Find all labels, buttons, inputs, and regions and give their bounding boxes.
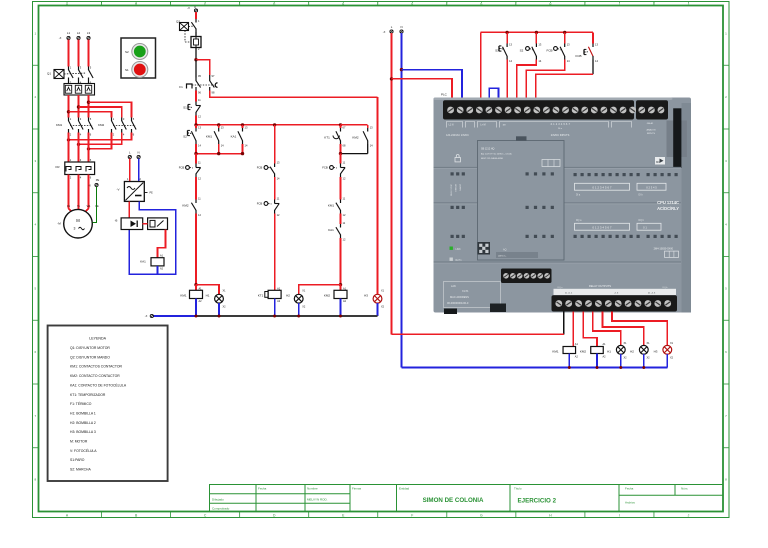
svg-text:S1: S1: [125, 68, 129, 72]
svg-text:F: F: [411, 513, 413, 517]
svg-text:MAINT: MAINT: [459, 183, 462, 190]
svg-text:H1: H1: [206, 294, 210, 298]
svg-text:AQ 1x17 KTT 4x 10VDC - 0.5mA: AQ 1x17 KTT 4x 10VDC - 0.5mA: [481, 152, 512, 155]
svg-text:KM2: KM2: [352, 136, 359, 140]
svg-text:L1 N: L1 N: [449, 124, 454, 126]
svg-text:PE: PE: [150, 192, 154, 195]
svg-text:H1: H1: [607, 349, 611, 353]
svg-text:MAC ADDRESS: MAC ADDRESS: [450, 295, 469, 299]
svg-text:KA1: KA1: [328, 228, 334, 232]
svg-text:Dibujado: Dibujado: [212, 497, 224, 501]
svg-text:.0 .1 .2 .3 .4 .5 .6 .7: .0 .1 .2 .3 .4 .5 .6 .7: [550, 124, 571, 126]
svg-text:S2: S2: [520, 49, 524, 53]
svg-text:FCB: FCB: [257, 202, 263, 206]
svg-text:00-00000000-00-0: 00-00000000-00-0: [447, 301, 469, 305]
svg-text:ANALOG: ANALOG: [646, 129, 655, 132]
svg-text:MELVYN ROD.: MELVYN ROD.: [307, 497, 328, 501]
svg-text:0 2 3 4 5: 0 2 3 4 5: [646, 186, 657, 190]
svg-text:Fecha: Fecha: [258, 486, 267, 490]
svg-text:Q: Q: [194, 5, 196, 9]
svg-text:DQ a: DQ a: [558, 287, 564, 289]
svg-text:V: FOTOCÉLULA: V: FOTOCÉLULA: [70, 448, 97, 453]
svg-text:ERROR: ERROR: [456, 184, 458, 192]
svg-text:KM1: KM1: [552, 349, 559, 353]
svg-text:KT1: KT1: [324, 136, 330, 140]
svg-text:INPUTS: INPUTS: [647, 133, 656, 135]
svg-text:-X: -X: [59, 36, 62, 40]
svg-text:FCB: FCB: [576, 54, 582, 58]
svg-text:-V: -V: [117, 188, 120, 192]
svg-text:S1:PARO: S1:PARO: [70, 458, 85, 462]
svg-text:MC: MC: [656, 160, 660, 164]
svg-text:Q1: DISYUNTOR MOTOR: Q1: DISYUNTOR MOTOR: [70, 346, 110, 350]
svg-text:FCB: FCB: [322, 166, 328, 170]
svg-text:CPU 1214C: CPU 1214C: [657, 200, 679, 205]
svg-text:Rx/Tx: Rx/Tx: [456, 260, 463, 262]
svg-text:KM1: KM1: [206, 135, 213, 139]
svg-text:KA1: CONTACTO DE FOTOCÉLULA: KA1: CONTACTO DE FOTOCÉLULA: [70, 382, 127, 387]
svg-text:X1 P1: X1 P1: [462, 290, 469, 293]
svg-text:RUN / STOP: RUN / STOP: [451, 183, 453, 195]
svg-text:H2: H2: [286, 294, 290, 298]
svg-text:N: N: [138, 151, 140, 155]
svg-text:KA1: KA1: [140, 260, 146, 264]
svg-text:AC/DC/RLY: AC/DC/RLY: [657, 206, 679, 211]
svg-text:F1: F1: [179, 85, 183, 89]
svg-text:EJERCICIO 2: EJERCICIO 2: [518, 498, 557, 505]
svg-text:LEYENDA: LEYENDA: [89, 337, 106, 341]
svg-text:AQ: AQ: [503, 249, 507, 252]
svg-text:-X: -X: [383, 30, 386, 34]
svg-text:FCB: FCB: [179, 166, 185, 170]
svg-text:S2: S2: [183, 135, 187, 139]
svg-text:S2: MARCHA: S2: MARCHA: [70, 468, 91, 472]
svg-text:1L .0 .1: 1L .0 .1: [565, 293, 573, 295]
svg-text:KT1: KT1: [258, 294, 264, 298]
svg-text:F1: TÉRMICO: F1: TÉRMICO: [70, 401, 92, 406]
svg-text:H3: H3: [364, 294, 368, 298]
svg-text:LAN: LAN: [451, 285, 456, 288]
svg-text:L3: L3: [87, 31, 91, 35]
svg-text:Comprobado: Comprobado: [212, 507, 230, 511]
svg-text:SIMON DE COLONIA: SIMON DE COLONIA: [423, 497, 484, 504]
svg-text:Título: Título: [514, 486, 522, 490]
svg-text:N: N: [400, 25, 402, 29]
svg-text:KM2: KM2: [182, 204, 189, 208]
svg-text:1M: 1M: [502, 124, 505, 126]
svg-text:H1: BOMBILLA 1: H1: BOMBILLA 1: [70, 411, 96, 415]
svg-text:DI a: DI a: [576, 194, 581, 196]
svg-text:H2: H2: [630, 349, 634, 353]
svg-text:RELAY OUTPUTS: RELAY OUTPUTS: [589, 284, 611, 288]
svg-text:0 1 2 3 4 5 6 7: 0 1 2 3 4 5 6 7: [592, 186, 612, 190]
svg-text:KM2: KM2: [324, 294, 331, 298]
svg-text:KA1: KA1: [231, 135, 237, 139]
svg-text:Núm.: Núm.: [681, 486, 688, 490]
svg-text:-B: -B: [115, 219, 118, 223]
svg-text:I: I: [619, 513, 620, 517]
svg-text:-X: -X: [88, 184, 91, 188]
svg-text:KM1: KM1: [56, 123, 63, 127]
svg-text:M: M: [76, 218, 80, 223]
svg-text:SB 1212 HQ: SB 1212 HQ: [481, 148, 495, 151]
svg-text:Fecha: Fecha: [625, 486, 634, 490]
svg-text:Q1: Q1: [47, 72, 51, 76]
svg-text:-X: -X: [187, 6, 190, 10]
svg-text:-X: -X: [145, 314, 148, 318]
svg-text:KT1: TEMPORIZADOR: KT1: TEMPORIZADOR: [70, 393, 106, 397]
svg-text:2M4-13830-0X00: 2M4-13830-0X00: [654, 247, 674, 250]
svg-text:24VDC INPUTS: 24VDC INPUTS: [551, 133, 570, 137]
svg-text:KM2: KM2: [98, 123, 105, 127]
svg-text:Q2: DISYUNTOR MANDO: Q2: DISYUNTOR MANDO: [70, 355, 110, 359]
svg-text:L1: L1: [67, 31, 71, 35]
svg-text:2L .4 .5: 2L .4 .5: [648, 293, 656, 295]
svg-text:Entidad: Entidad: [399, 486, 410, 490]
svg-text:S1: S1: [183, 106, 187, 110]
svg-text:3: 3: [74, 227, 76, 231]
svg-text:PLC: PLC: [441, 93, 448, 97]
svg-text:H3: BOMBILLA 3: H3: BOMBILLA 3: [70, 430, 96, 434]
svg-text:J: J: [688, 513, 690, 517]
svg-text:QM 13 +: QM 13 +: [498, 256, 507, 258]
svg-text:KM2: KM2: [580, 349, 587, 353]
svg-text:120-240VAC 24VDC: 120-240VAC 24VDC: [446, 134, 469, 137]
svg-text:W1: W1: [87, 205, 91, 208]
svg-text:S2: S2: [125, 50, 129, 54]
svg-text:0 1 2 3 4 5 6 7: 0 1 2 3 4 5 6 7: [592, 226, 612, 230]
svg-text:KM2: CONTACTO CONTACTOR: KM2: CONTACTO CONTACTOR: [70, 374, 120, 378]
svg-text:H2: BOMBILLA 2: H2: BOMBILLA 2: [70, 421, 96, 425]
svg-text:KM1: KM1: [180, 294, 187, 298]
svg-text:Firmas: Firmas: [352, 486, 362, 490]
svg-text:L+ M: L+ M: [480, 124, 485, 126]
svg-text:L2: L2: [77, 31, 81, 35]
svg-text:6ES7 212-1HE40-0XB0: 6ES7 212-1HE40-0XB0: [481, 158, 504, 160]
svg-text:PE: PE: [96, 178, 100, 182]
svg-text:FCB: FCB: [547, 49, 553, 53]
svg-text:KM1: KM1: [328, 204, 335, 208]
svg-text:LINK: LINK: [456, 249, 462, 251]
svg-text:DQ b: DQ b: [663, 287, 669, 289]
svg-text:G: G: [480, 513, 483, 517]
svg-text:Nombre: Nombre: [307, 486, 318, 490]
svg-text:DI b: DI b: [639, 194, 644, 196]
svg-text:M: MOTOR: M: MOTOR: [70, 440, 88, 444]
svg-text:KM1: CONTACTOS CONTACTOR: KM1: CONTACTOS CONTACTOR: [70, 365, 122, 369]
svg-text:DQ b: DQ b: [639, 220, 645, 222]
svg-text:H3: H3: [654, 349, 658, 353]
svg-text:Archivo: Archivo: [625, 501, 635, 505]
svg-text:GN A1: GN A1: [647, 122, 654, 125]
svg-text:DQ a: DQ a: [576, 220, 582, 222]
svg-text:FCB: FCB: [257, 166, 263, 170]
svg-text:-M: -M: [57, 222, 61, 226]
svg-text:0 1: 0 1: [643, 226, 647, 230]
